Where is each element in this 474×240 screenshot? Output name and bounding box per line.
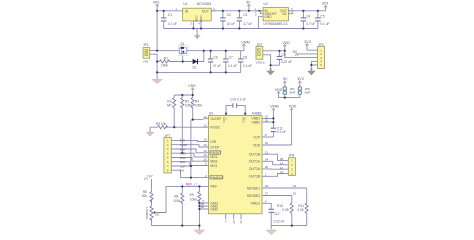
svg-text:C5: C5 [320, 15, 324, 19]
svg-text:10 uF: 10 uF [227, 22, 235, 26]
svg-text:VIN: VIN [143, 60, 148, 64]
svg-text:VREG: VREG [251, 202, 261, 206]
svg-text:3: 3 [213, 7, 215, 11]
svg-text:0.1 uF: 0.1 uF [277, 130, 286, 134]
svg-text:0.05: 0.05 [297, 208, 303, 212]
svg-text:20: 20 [232, 220, 236, 224]
svg-text:1V7: 1V7 [147, 175, 153, 179]
svg-text:3V3: 3V3 [322, 2, 328, 6]
svg-text:4.7 uF: 4.7 uF [168, 22, 177, 26]
svg-text:0.1 uF: 0.1 uF [243, 64, 252, 68]
svg-text:CP2: CP2 [241, 116, 245, 122]
svg-text:S1: S1 [293, 184, 297, 188]
svg-text:VIN: VIN [153, 0, 159, 4]
svg-text:100k: 100k [173, 199, 180, 203]
svg-text:S2: S2 [293, 192, 297, 196]
svg-text:REF: REF [186, 182, 192, 186]
svg-text:OUT1A: OUT1A [249, 160, 261, 164]
svg-text:4: 4 [265, 200, 267, 204]
svg-text:0.1 uF: 0.1 uF [320, 22, 329, 26]
svg-text:1: 1 [265, 173, 267, 177]
svg-text:4: 4 [198, 22, 200, 26]
svg-text:R7: R7 [156, 213, 160, 217]
svg-text:VBB2: VBB2 [252, 120, 261, 124]
svg-text:3V3: 3V3 [297, 77, 303, 81]
svg-text:29: 29 [239, 220, 243, 224]
svg-text:U1: U1 [183, 2, 187, 6]
svg-text:ROSC: ROSC [210, 125, 220, 129]
svg-text:OUT1B: OUT1B [249, 153, 261, 157]
svg-text:U2: U2 [264, 2, 268, 6]
svg-text:25: 25 [265, 118, 269, 122]
svg-text:14: 14 [203, 115, 207, 119]
svg-text:JP8: JP8 [289, 154, 295, 158]
svg-text:C9: C9 [282, 53, 286, 57]
svg-text:U3: U3 [209, 111, 213, 115]
svg-text:26: 26 [265, 165, 269, 169]
svg-text:15: 15 [265, 141, 269, 145]
svg-text:VMM: VMM [270, 105, 278, 109]
svg-text:GND: GND [210, 207, 218, 211]
svg-text:VDD: VDD [188, 84, 196, 88]
svg-text:D1: D1 [193, 66, 197, 70]
svg-text:C2: C2 [227, 13, 231, 17]
svg-text:3V3: 3V3 [304, 40, 310, 44]
svg-text:8: 8 [265, 133, 267, 137]
svg-text:REF: REF [210, 185, 217, 189]
svg-text:DIR: DIR [210, 140, 216, 144]
svg-text:SENSE2: SENSE2 [247, 194, 260, 198]
svg-text:SMT: SMT [304, 91, 311, 95]
svg-text:21: 21 [265, 150, 269, 154]
svg-text:OUT2B: OUT2B [249, 175, 261, 179]
svg-text:Q1: Q1 [180, 42, 184, 46]
svg-text:0.05: 0.05 [282, 208, 288, 212]
svg-text:LP2980AIM5-3.3: LP2980AIM5-3.3 [264, 22, 288, 26]
svg-text:VDD in: VDD in [256, 60, 266, 64]
svg-text:C6: C6 [214, 56, 218, 60]
svg-text:CP1: CP1 [222, 116, 226, 122]
svg-text:SLEEP: SLEEP [210, 117, 222, 121]
svg-text:17: 17 [194, 182, 198, 186]
svg-text:SENSE1: SENSE1 [247, 186, 260, 190]
svg-text:4.7 uF: 4.7 uF [243, 22, 252, 26]
svg-text:NCV4264: NCV4264 [197, 2, 212, 6]
svg-text:1B: 1B [280, 157, 284, 161]
svg-text:16: 16 [203, 143, 207, 147]
svg-text:NP: NP [167, 104, 171, 108]
svg-text:STEP: STEP [210, 145, 220, 149]
svg-text:R5 10k: R5 10k [156, 122, 167, 126]
svg-text:C3: C3 [243, 13, 247, 17]
svg-text:C4: C4 [306, 15, 310, 19]
svg-text:4.7 uF: 4.7 uF [306, 22, 315, 26]
svg-text:JP1: JP1 [143, 43, 149, 47]
svg-text:A4983: A4983 [252, 111, 262, 115]
svg-text:20k: 20k [142, 194, 148, 198]
svg-text:2B: 2B [280, 170, 284, 174]
svg-text:19: 19 [203, 138, 207, 142]
svg-text:27: 27 [265, 192, 269, 196]
svg-text:OUT2A: OUT2A [249, 167, 261, 171]
svg-text:GND: GND [265, 15, 273, 19]
svg-text:C12: C12 [274, 212, 280, 216]
svg-text:0.22 uF: 0.22 uF [281, 60, 292, 64]
svg-text:C1: C1 [168, 13, 172, 17]
svg-text:VDD: VDD [253, 143, 261, 147]
svg-text:13: 13 [203, 123, 207, 127]
svg-text:C10 0.1 uF: C10 0.1 uF [230, 98, 246, 102]
svg-text:5V: 5V [283, 77, 288, 81]
svg-text:NC: NC [282, 12, 287, 16]
svg-text:9: 9 [205, 162, 207, 166]
svg-text:100k: 100k [161, 63, 168, 67]
svg-text:2A: 2A [280, 166, 284, 170]
svg-text:JP2: JP2 [257, 43, 263, 47]
svg-text:VDD: VDD [289, 105, 297, 109]
svg-text:1: 1 [175, 7, 177, 11]
svg-text:JP3: JP3 [318, 43, 324, 47]
svg-text:TRIMPOT: TRIMPOT [145, 207, 149, 220]
svg-text:R1: R1 [164, 56, 168, 60]
svg-text:MS1: MS1 [210, 164, 217, 168]
svg-text:0.1 uF: 0.1 uF [228, 64, 237, 68]
svg-text:1A: 1A [280, 162, 284, 166]
svg-text:5V: 5V [246, 0, 251, 4]
svg-text:0.22 uF: 0.22 uF [274, 219, 285, 223]
svg-text:EN: EN [180, 169, 184, 173]
svg-text:28: 28 [200, 205, 204, 209]
svg-text:VMM: VMM [241, 40, 249, 44]
svg-text:100k: 100k [190, 197, 197, 201]
svg-text:SMT: SMT [289, 91, 296, 95]
svg-text:5V: 5V [293, 50, 298, 54]
svg-text:C8: C8 [243, 56, 247, 60]
svg-text:24: 24 [265, 158, 269, 162]
svg-text:100k: 100k [195, 104, 202, 108]
svg-text:IN: IN [185, 9, 189, 13]
svg-text:2: 2 [190, 22, 192, 26]
svg-text:JP7: JP7 [165, 134, 171, 138]
svg-text:VDD: VDD [282, 41, 290, 45]
svg-text:47 uF: 47 uF [213, 64, 221, 68]
svg-text:C7: C7 [229, 56, 233, 60]
svg-text:OUT: OUT [202, 9, 209, 13]
svg-text:2: 2 [205, 174, 207, 178]
svg-text:23: 23 [265, 184, 269, 188]
svg-text:VCP: VCP [253, 135, 261, 139]
svg-text:100k: 100k [185, 104, 192, 108]
